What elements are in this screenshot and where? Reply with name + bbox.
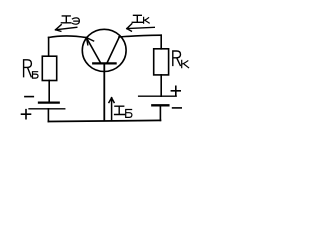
current label Iб (115, 106, 132, 117)
transistor VT1 emitter (arrow out at top-left) (86, 38, 100, 63)
label minus (GB1) (25, 96, 33, 98)
wire: RK to battery GB2 (160, 75, 162, 96)
resistor RБ (42, 56, 56, 80)
battery GB2 positive plate (long, thin) (139, 95, 177, 97)
wire: RБ to battery GB1 (48, 81, 50, 102)
battery GB1 positive plate (long, thin) (29, 108, 65, 110)
current label Iк (132, 15, 149, 23)
wire: left vertical down to RB (48, 37, 50, 56)
arrow Iэ (pointing left) (56, 25, 77, 32)
wire: bottom rail (48, 120, 160, 121)
emitter arrowhead (86, 38, 93, 45)
wire: GB2 down to bottom rail (159, 106, 161, 120)
label minus (GB2) (173, 107, 182, 109)
wire: base lead down to rail (103, 63, 105, 120)
arrow Iб (pointing up from rail) (109, 98, 114, 121)
resistor Rк (154, 49, 169, 75)
battery GB2 negative plate (short, thick) (152, 104, 168, 106)
wire: GB1 down to bottom rail (47, 109, 49, 122)
battery GB1 negative plate (short, thick) (39, 101, 59, 103)
label plus (GB2) (171, 86, 180, 95)
transistor VT1 base bar (93, 62, 115, 64)
transistor VT1 collector (107, 37, 119, 63)
label RБ (24, 60, 38, 78)
current label Iэ (61, 16, 79, 24)
wire: emitter top-left horizontal (49, 36, 87, 38)
arrow Iк (pointing left) (127, 24, 155, 32)
wire: collector top-right horizontal (119, 35, 161, 37)
wire: right vertical down to RK (160, 35, 162, 49)
label Rк (173, 51, 189, 68)
label plus (GB1) (22, 110, 31, 119)
transistor VT1 body (82, 29, 126, 71)
